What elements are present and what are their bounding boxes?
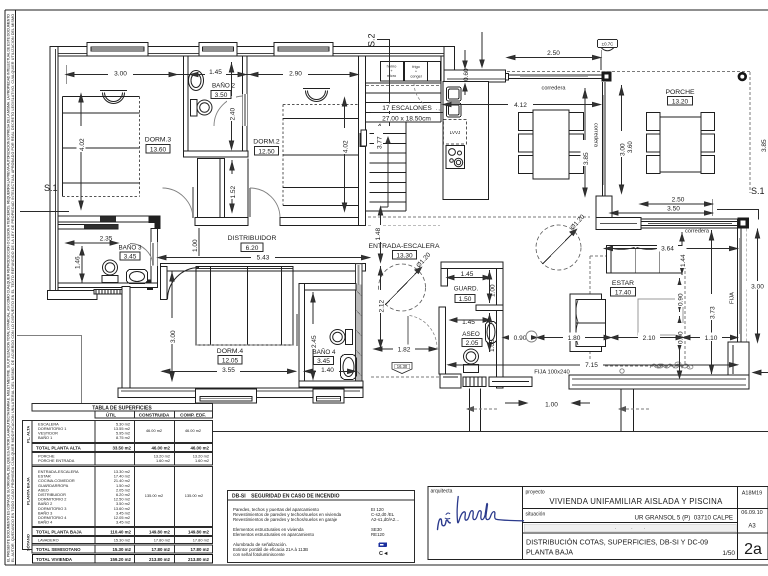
aseo west wall [439,307,446,374]
dim 3.00 porch [619,85,623,193]
stair window dark [360,133,366,147]
svg-text:1.82: 1.82 [398,347,411,354]
bano4 tub [341,355,357,380]
entry south door swing [410,316,438,349]
svg-text:1.00: 1.00 [192,239,199,252]
total semisotano [32,545,213,553]
surfaces table [17,336,768,564]
svg-text:congel: congel [410,75,421,79]
svg-text:C◄: C◄ [379,551,388,557]
svg-text:1.60 m2: 1.60 m2 [195,458,209,463]
bano4 toilet [330,330,353,345]
dark sill dorm3 [100,217,116,222]
svg-text:EL AUTOR, QUEDANDO EN TODO CAS: EL AUTOR, QUEDANDO EN TODO CASO PROHIBID… [11,14,15,562]
corredera top sliding door [506,74,602,81]
header row [95,411,135,418]
svg-text:3.50: 3.50 [215,92,228,99]
svg-text:17.40: 17.40 [615,289,632,296]
svg-text:LAVADERO: LAVADERO [38,538,59,543]
bano3 south wall [58,283,158,288]
bano2 sink [189,71,204,91]
svg-text:BAÑO 4: BAÑO 4 [38,520,53,525]
dorm4 south wall [118,388,363,398]
dim 0.60 [463,50,467,95]
dim 1.45 guard [447,275,490,279]
entry dashed path [371,376,440,378]
bano4 south thin wall [299,381,363,387]
sofa top estar [607,246,683,273]
table leader line [17,336,82,404]
svg-text:13.60: 13.60 [150,146,167,153]
svg-text:3.00: 3.00 [751,283,764,290]
lavadero row [32,537,213,544]
svg-text:1.10: 1.10 [705,335,718,342]
window W1 dorm3 [87,43,148,56]
porch table [647,113,715,174]
svg-text:2.40: 2.40 [230,107,237,120]
svg-text:3.50: 3.50 [667,206,680,213]
svg-text:GUARD.: GUARD. [454,286,479,293]
total planta alta [32,444,213,452]
kitchen counter dashed [366,85,441,87]
estar south sliding door [641,219,738,228]
dim 3.00 dorm4 [170,272,174,381]
svg-text:0.90: 0.90 [678,293,685,306]
svg-text:DISTRIBUIDOR: DISTRIBUIDOR [228,235,277,242]
svg-text:135.00 m2: 135.00 m2 [145,493,163,498]
margin legal text [7,14,16,562]
svg-text:159.20 m2: 159.20 m2 [110,557,132,562]
svg-text:2.50: 2.50 [547,50,560,57]
svg-text:1.60 m2: 1.60 m2 [156,458,170,463]
dim 2.35 bano3 [66,241,118,245]
nook east edge [247,158,249,217]
bano2 west wall [184,56,189,155]
svg-text:FIJA 100x240: FIJA 100x240 [534,369,569,375]
svg-text:RE120: RE120 [371,532,385,537]
guard west wall stub [441,262,448,286]
dim 3.50 porch s [610,199,713,216]
dim 1.52 nook [230,160,234,212]
svg-text:proyecto: proyecto [526,490,545,496]
fija window east [738,229,747,343]
sofa left estar [570,294,606,352]
stairs lower flight [366,122,407,211]
west exterior wall [50,47,58,300]
svg-text:3.00: 3.00 [170,330,177,343]
dorm3 chair [100,91,127,104]
dim 1.00 bottom [505,401,590,406]
north exterior wall band [50,47,454,57]
svg-text:corredera: corredera [685,229,710,235]
svg-text:BAÑO 4: BAÑO 4 [312,347,336,356]
dim 3.73 rot [709,230,713,374]
svg-text:3.73: 3.73 [710,306,717,319]
svg-text:corredera: corredera [542,86,567,92]
svg-text:Ø1.20: Ø1.20 [569,213,586,231]
svg-text:5.43: 5.43 [257,254,270,261]
svg-text:2a: 2a [744,541,762,558]
island sinks [447,87,462,117]
bano4 door leaf [296,314,298,346]
circle guard [536,225,581,270]
porche rows [32,453,213,466]
svg-text:2.10: 2.10 [643,335,656,342]
svg-text:17.80 m2: 17.80 m2 [154,538,170,543]
svg-text:PLANTA BAJA: PLANTA BAJA [526,548,573,557]
south window B [489,377,532,387]
svg-text:3.85: 3.85 [583,152,590,165]
dim 1.00 guard rot [487,270,491,303]
svg-text:Elementos estructurales en apa: Elementos estructurales en aparcamiento [233,532,315,537]
svg-text:4.02: 4.02 [343,140,350,153]
estar dashed area [590,256,685,366]
svg-text:PLANTA BAJA: PLANTA BAJA [26,477,31,505]
svg-text:46.00 m2: 46.00 m2 [185,428,201,433]
column P1 [602,72,612,82]
svg-text:CONSTRUIDA: CONSTRUIDA [139,413,170,418]
svg-text:1.50: 1.50 [459,296,472,303]
svg-text:13.30: 13.30 [396,252,413,259]
dim 1.46 bano3 [80,246,84,283]
svg-text:3.55: 3.55 [222,367,235,374]
small circle on dashed [620,369,624,373]
dorm2 bed [283,105,358,206]
svg-text:46.00 m2: 46.00 m2 [151,446,170,451]
svg-text:149.80 m2: 149.80 m2 [149,530,171,535]
svg-text:12.50: 12.50 [258,148,275,155]
corridor dashed paso [368,216,590,218]
svg-text:1.00: 1.00 [490,284,497,297]
dining table interior [519,110,584,179]
0.90 lower extension [677,352,681,378]
row label column [23,421,33,550]
aseo south pillar [440,374,461,388]
dim 3.64 [605,246,738,250]
svg-text:TOTAL VIVIENDA: TOTAL VIVIENDA [36,557,73,562]
island cooktop [446,146,465,169]
aseo sink [486,322,497,344]
svg-text:213.80 m2: 213.80 m2 [149,557,171,562]
svg-text:arquitecta: arquitecta [431,489,453,495]
svg-text:S.1: S.1 [751,186,765,196]
svg-text:15.30 m2: 15.30 m2 [114,538,130,543]
svg-text:1.46: 1.46 [75,256,82,269]
dim 2.40 bano2 [229,62,233,149]
svg-text:UR GRANSOL 5 (P) 03710 CALPE: UR GRANSOL 5 (P) 03710 CALPE [635,515,733,522]
dorm2 door swing [250,188,280,217]
dim 2.12 [378,266,382,349]
dorm4 door swing [168,268,200,300]
guard north wall [441,262,503,269]
svg-text:17.80 m2: 17.80 m2 [190,547,209,552]
SE corner wall [728,342,749,376]
svg-text:BAÑO 2: BAÑO 2 [212,81,236,90]
bano4 hatched east wall [356,264,363,387]
bano3 east wall [151,229,158,288]
svg-text:0.60: 0.60 [463,68,470,81]
svg-text:PL. ALTA: PL. ALTA [26,426,31,443]
nook south wall [195,217,248,225]
coffee table [638,299,683,335]
svg-text:micro: micro [387,74,396,78]
elevation marker top [598,40,618,71]
dim 1.44 rot [680,232,684,275]
dim 4.12 [443,102,601,106]
svg-text:3.85: 3.85 [761,139,768,152]
estar corner wall [596,196,612,228]
title block [428,487,768,560]
dim 3.85 [583,88,587,196]
bano4 door gap north [356,265,362,285]
dim 2.45 bano4 [311,292,315,379]
svg-text:1.00: 1.00 [545,402,558,409]
svg-text:VIVIENDA UNIFAMILIAR AISLADA Y: VIVIENDA UNIFAMILIAR AISLADA Y PISCINA [549,497,723,506]
svg-text:1.45: 1.45 [209,69,222,76]
escalones label [378,104,436,113]
survey marker [738,72,747,81]
svg-text:4.02: 4.02 [79,138,86,151]
svg-text:3.45 m2: 3.45 m2 [116,520,130,525]
svg-text:16.30: 16.30 [397,364,408,369]
svg-text:TOTAL PLANTA ALTA: TOTAL PLANTA ALTA [36,446,82,451]
bano3 toilet [102,260,118,283]
svg-text:27.00 x 18.50cm: 27.00 x 18.50cm [382,116,431,123]
svg-text:3.00: 3.00 [114,71,127,78]
stair flight triangle mark [375,124,382,130]
dorm4 north wall [161,264,366,272]
svg-text:±0.7C: ±0.7C [602,42,614,47]
kitchen island [443,82,489,200]
dim 2.50 porch s [640,202,713,206]
closet block distribuidor [197,158,220,217]
svg-text:EL PRESENTE DOCUMENTO ES COPIA: EL PRESENTE DOCUMENTO ES COPIA DE SU ORI… [7,14,11,562]
svg-text:2.12: 2.12 [379,299,386,312]
dim chain estar y337.5 [503,335,738,339]
svg-text:horno: horno [387,65,397,69]
dorm4 south window2 [313,389,344,403]
svg-text:PORCHE ENTRADA: PORCHE ENTRADA [38,458,75,463]
dorm2 door leaf [249,188,251,217]
svg-text:1.05: 1.05 [489,339,496,352]
svg-text:DB-SI SEGURIDAD EN CASO DE: DB-SI SEGURIDAD EN CASO DE INCENDIO [232,494,340,500]
svg-text:A2-s1,d0/A2…: A2-s1,d0/A2… [371,517,400,522]
dim 1.05 aseo rot [487,313,491,352]
terrace south wall east [569,375,749,389]
svg-text:corredera: corredera [593,123,599,148]
stair direction arrow [380,136,391,207]
svg-text:3.64: 3.64 [661,245,674,252]
svg-text:1.45: 1.45 [462,319,475,326]
dim 3.55 [162,369,296,373]
dim 3.00 fija [755,229,759,343]
svg-text:S.2: S.2 [367,33,377,47]
dorm4 wardrobe [196,267,293,346]
bano2 east wall [243,56,248,155]
svg-text:situación: situación [526,512,546,518]
stairs door swing dashed [414,83,441,110]
svg-text:ESTAR: ESTAR [612,280,634,287]
dorm2 east wall [359,56,366,226]
svg-text:17 ESCALONES: 17 ESCALONES [382,105,432,112]
svg-text:TOTAL SEMISOTANO: TOTAL SEMISOTANO [36,547,81,552]
terrace wall SW [48,291,98,300]
svg-text:1.44: 1.44 [680,254,687,267]
plants [650,362,693,369]
svg-text:3.77: 3.77 [377,136,384,149]
dim 0.90 rot b [677,316,681,352]
planta baja block [32,467,213,527]
svg-text:0.90: 0.90 [514,335,527,342]
guard-aseo divider wall [476,305,503,311]
total planta baja [32,528,213,536]
hatched window SW [94,290,123,295]
svg-text:17.80 m2: 17.80 m2 [193,538,209,543]
dim 4.02 dorm2 [342,98,346,211]
dorm3 door swing [163,188,194,218]
svg-text:BAÑO 3: BAÑO 3 [118,243,142,252]
dim 4.02 dorm3 [79,94,83,209]
svg-text:TOTAL PLANTA BAJA: TOTAL PLANTA BAJA [36,530,83,535]
S.2 leader [367,33,390,126]
dim 1.40 [305,369,356,373]
svg-text:149.80 m2: 149.80 m2 [188,530,210,535]
porch dashed boundary [507,72,750,194]
FIJA 100x240 label [528,368,576,376]
svg-text:12.05: 12.05 [222,357,239,364]
estar corredera west sliding [602,82,605,196]
svg-text:2.50: 2.50 [672,197,685,204]
column P2 [738,218,750,229]
dim 3.77 stairs [374,126,384,150]
svg-text:ENTRADA-ESCALERA: ENTRADA-ESCALERA [368,243,439,250]
svg-text:A3: A3 [748,524,756,530]
ENTRADA label [367,242,441,251]
dorm4 west wall [122,287,130,397]
bano4 north wall [299,284,356,291]
S.1 left [20,183,69,212]
dim 2.50 top porch [507,55,601,70]
elevation marker entry [392,363,412,374]
window W2 bano2 [199,43,237,56]
S.1 right [717,186,765,220]
svg-text:1/50: 1/50 [722,550,735,557]
bano2 south wall [184,151,249,157]
svg-text:S.1: S.1 [44,183,58,193]
section pl alta [32,421,213,443]
entry door jamb black [149,216,161,224]
bano3 north wall [58,225,118,230]
svg-text:4.12: 4.12 [514,102,527,109]
dorm4 door jamb wall [161,267,168,300]
svg-text:8.75 m2: 8.75 m2 [116,435,130,440]
svg-text:110.40 m2: 110.40 m2 [110,530,131,535]
arrow right corner [753,370,768,375]
dorm2 south wall [280,217,366,225]
svg-text:3.00: 3.00 [620,143,627,156]
svg-text:7.15: 7.15 [585,362,598,369]
steps below estar [618,389,649,432]
total vivienda [33,555,213,564]
svg-text:A18M19: A18M19 [742,491,763,497]
svg-text:SÓTANO: SÓTANO [26,534,31,551]
svg-text:1.40: 1.40 [321,367,334,374]
svg-text:Ø1.20: Ø1.20 [415,251,432,269]
dim 1.45 aseo [450,318,490,322]
dorm4 south window1 [196,389,257,403]
svg-text:ASEO: ASEO [462,331,480,338]
svg-text:Revestimientos de paredes y te: Revestimientos de paredes y techos/suelo… [233,517,338,522]
north wall step down [444,47,455,83]
window W3 dorm2 [274,43,333,56]
dim 1.82 [374,347,437,351]
svg-text:46.00 m2: 46.00 m2 [190,446,209,451]
svg-text:135.00 m2: 135.00 m2 [185,493,203,498]
svg-text:LVVJ: LVVJ [450,130,461,135]
svg-text:2.45: 2.45 [311,335,318,348]
guard-aseo east wall [497,262,504,388]
svg-text:2.90: 2.90 [289,71,302,78]
svg-text:1.48: 1.48 [375,227,382,240]
svg-text:PORCHE: PORCHE [665,89,695,96]
svg-text:6.20: 6.20 [246,245,259,252]
south window A [463,377,486,387]
section line long [79,431,768,433]
proyecto rows [523,508,768,510]
bano3 sink [127,270,148,284]
svg-text:FIJA: FIJA [730,292,736,304]
DB-SI fire safety box [228,491,415,563]
dorm2 chair [303,89,330,102]
svg-text:33.50 m2: 33.50 m2 [112,446,131,451]
svg-text:15.30 m2: 15.30 m2 [112,547,131,552]
svg-text:13.20: 13.20 [672,98,689,105]
svg-text:con señal fotoluminiscente: con señal fotoluminiscente [233,552,285,557]
svg-text:2.35: 2.35 [100,236,113,243]
kitchen cabinets horno frigo [381,62,441,82]
svg-text:2.05: 2.05 [466,340,479,347]
svg-text:1.80: 1.80 [568,335,581,342]
circle entrada [379,264,426,311]
aseo toilet [464,349,479,373]
svg-text:1.52: 1.52 [230,185,237,198]
svg-text:1.45: 1.45 [461,271,474,278]
steps below aseo [466,389,497,432]
dorm3 door leaf [192,187,194,218]
svg-text:DORM.2: DORM.2 [253,139,280,146]
svg-text:06.09.10: 06.09.10 [741,510,762,516]
bano4 west wall [299,284,305,382]
svg-text:DORM.4: DORM.4 [217,348,244,355]
svg-text:· · ·: · · · [615,526,646,531]
svg-text:3.45: 3.45 [124,254,137,261]
dorm3 south wall [58,216,160,222]
svg-text:3.45: 3.45 [317,358,330,365]
svg-text:BAÑO 1: BAÑO 1 [38,435,52,440]
table outer [32,404,213,412]
bano2 toilet [191,100,213,117]
svg-text:213.80 m2: 213.80 m2 [188,557,210,562]
dim 0.90 rot a [677,278,681,312]
svg-text:frigo: frigo [412,65,419,69]
dim chain top y77.5 [66,60,358,84]
svg-text:DISTRIBUCIÓN COTAS, SUPERFICIE: DISTRIBUCIÓN COTAS, SUPERFICIES, DB-SI Y… [526,538,708,547]
svg-text:46.00 m2: 46.00 m2 [146,428,162,433]
svg-text:ÚTIL: ÚTIL [106,412,116,418]
dorm3 bed [63,96,140,196]
dim 1.48 entrada [378,207,382,262]
stairs upper flight [366,56,442,122]
